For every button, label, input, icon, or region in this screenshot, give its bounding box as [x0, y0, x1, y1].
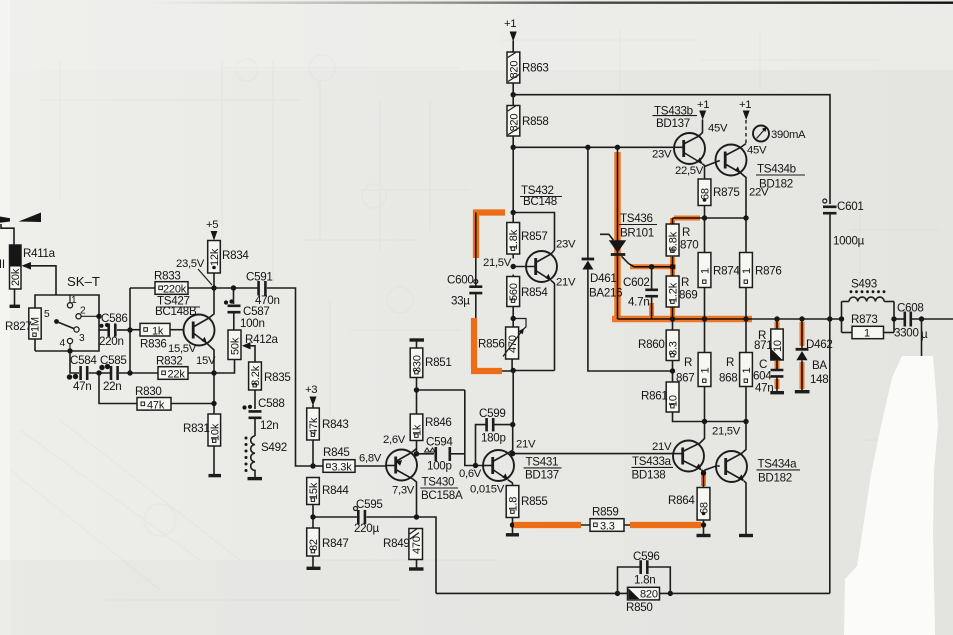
svg-text:869: 869	[679, 289, 697, 302]
wire down to 21V node	[512, 371, 514, 425]
resistor R854	[507, 275, 549, 328]
node C599/21V column	[510, 422, 515, 427]
node C602 top	[649, 264, 654, 269]
switch contact 4	[67, 338, 72, 343]
svg-text:100n: 100n	[240, 317, 265, 330]
wire rail through R850	[618, 592, 671, 594]
svg-text:R856: R856	[478, 338, 505, 351]
svg-text:BD137: BD137	[525, 469, 559, 482]
svg-text:10k: 10k	[209, 423, 221, 441]
wire left bus vertical	[129, 288, 131, 373]
svg-text:R832: R832	[156, 355, 183, 368]
svg-text:3300: 3300	[894, 327, 919, 340]
capacitor C601	[823, 199, 865, 319]
svg-text:R836: R836	[140, 338, 167, 351]
diode D461	[582, 147, 673, 371]
wire output loop right vertical	[829, 319, 831, 593]
svg-text:21,5V: 21,5V	[712, 426, 741, 438]
bottom rail	[436, 592, 618, 594]
thyristor TS436	[600, 147, 657, 319]
svg-text:2: 2	[80, 306, 86, 317]
svg-text:1.8n: 1.8n	[634, 574, 655, 587]
svg-text:R834: R834	[222, 249, 249, 262]
resistor R857	[507, 213, 548, 259]
svg-text:22,5V: 22,5V	[675, 165, 704, 177]
wire C594/R851 to TS431 base	[465, 390, 483, 466]
node TS436 tap	[615, 145, 620, 150]
svg-text:1: 1	[741, 368, 753, 374]
svg-text:68: 68	[699, 188, 711, 200]
svg-text:R411a: R411a	[23, 247, 56, 260]
capacitor C608	[894, 302, 953, 342]
node C596 left	[615, 591, 620, 596]
svg-text:23,5V: 23,5V	[176, 258, 205, 270]
svg-text:21V: 21V	[652, 441, 672, 453]
node C586/bus	[127, 327, 132, 332]
svg-text:1000µ: 1000µ	[833, 235, 865, 248]
capacitor C586	[99, 312, 130, 348]
svg-text:23V: 23V	[652, 149, 672, 161]
svg-text:R: R	[681, 276, 689, 289]
svg-text:BR101: BR101	[620, 227, 654, 240]
svg-text:15,5V: 15,5V	[168, 343, 197, 355]
svg-text:C588: C588	[258, 397, 285, 410]
diode D462	[795, 319, 833, 392]
svg-text:R860: R860	[638, 338, 665, 351]
node emitter/R832	[211, 370, 216, 375]
svg-text:871: 871	[754, 339, 772, 352]
svg-text:R843: R843	[322, 418, 349, 431]
node contact4-edge	[67, 348, 72, 353]
svg-text:R854: R854	[521, 286, 548, 299]
resistor R860	[638, 319, 680, 371]
svg-text:BD182: BD182	[758, 472, 792, 485]
node TS432 base	[511, 264, 516, 269]
wire supply rail to C601	[513, 95, 830, 204]
svg-text:R831: R831	[183, 422, 210, 435]
svg-text:S493: S493	[851, 278, 877, 291]
svg-text:470: 470	[411, 536, 423, 554]
output rail	[618, 318, 842, 320]
svg-text:15k: 15k	[308, 482, 320, 500]
resistor R858	[507, 95, 549, 148]
svg-text:180p: 180p	[481, 432, 506, 445]
capacitor C584	[67, 354, 98, 393]
svg-text:C586: C586	[101, 312, 128, 325]
node R875 bottom	[702, 215, 707, 220]
svg-text:R864: R864	[668, 494, 695, 507]
wire feedback to bottom rail	[417, 517, 437, 593]
svg-text:2,6V: 2,6V	[383, 434, 406, 446]
switch wiper 5	[54, 319, 59, 324]
resistor R844	[307, 478, 350, 529]
svg-text:15V: 15V	[196, 355, 216, 367]
svg-text:C599: C599	[479, 407, 506, 420]
svg-text:22n: 22n	[103, 380, 121, 393]
ground under R831	[209, 474, 222, 477]
svg-text:23V: 23V	[556, 239, 576, 251]
svg-text:C601: C601	[837, 200, 864, 213]
switch frame wire	[35, 295, 99, 351]
resistor R864	[668, 488, 711, 536]
svg-text:20k: 20k	[10, 268, 22, 286]
resistor R846	[410, 390, 451, 441]
capacitor C591	[246, 271, 280, 308]
capacitor C587	[224, 288, 270, 330]
svg-text:0,6V: 0,6V	[459, 468, 482, 480]
capacitor C599	[476, 407, 513, 466]
node TS432 emitter bottom	[511, 368, 516, 373]
resistor R845	[313, 446, 386, 474]
wire C585 to bus	[119, 372, 158, 374]
resistor R836	[130, 323, 184, 350]
node D461/R860	[670, 368, 675, 373]
resistor R847	[307, 528, 349, 568]
resistor R870	[666, 218, 698, 267]
svg-text:3: 3	[79, 333, 85, 344]
svg-text:BD138: BD138	[632, 469, 666, 482]
capacitor C585	[99, 354, 126, 393]
svg-text:R847: R847	[322, 537, 349, 550]
node R869 top	[670, 264, 675, 269]
transistor TS433b	[653, 105, 706, 165]
capacitor C602	[623, 267, 658, 319]
trimmer R856	[478, 319, 526, 371]
svg-text:+3: +3	[305, 384, 317, 396]
input tape-head arrows	[0, 213, 41, 223]
svg-text:10: 10	[772, 340, 784, 352]
node C596 right	[668, 591, 673, 596]
wire TS427 emitter down	[207, 343, 214, 474]
svg-text:1k: 1k	[152, 325, 164, 337]
wire TS432 column top	[512, 147, 514, 212]
node 23,5V	[211, 285, 216, 290]
node C585 junction	[96, 370, 101, 375]
svg-text:BA: BA	[812, 359, 827, 372]
svg-text:390mA: 390mA	[771, 129, 806, 141]
inductor S493 + resistor R873	[839, 278, 904, 340]
R411a wiper arrow	[30, 266, 56, 295]
svg-text:22k: 22k	[168, 369, 186, 381]
resistor R833	[130, 270, 214, 296]
orange highlight C600 column	[476, 210, 505, 259]
switch contact 2	[76, 314, 81, 319]
svg-text:R: R	[682, 226, 690, 239]
wire TS430 collector down	[413, 479, 417, 517]
switch contact 1	[69, 295, 71, 303]
svg-text:21,5V: 21,5V	[483, 257, 512, 269]
svg-text:47n: 47n	[73, 380, 91, 393]
wire TS432 emitter down	[551, 280, 555, 370]
capacitor C600	[447, 213, 513, 372]
svg-text:4.7n: 4.7n	[628, 296, 649, 309]
svg-text:R855: R855	[521, 495, 548, 508]
supply +5 / resistor R834	[206, 219, 249, 288]
resistor R850	[626, 587, 660, 614]
wire to TS433b base	[513, 146, 674, 148]
svg-text:21V: 21V	[556, 277, 576, 289]
switch contact 3	[74, 327, 79, 332]
svg-text:47k: 47k	[147, 400, 165, 412]
resistor R869	[666, 267, 697, 319]
potentiometer R411a	[10, 245, 56, 289]
node C587 tap	[231, 285, 236, 290]
svg-text:C608: C608	[897, 302, 924, 315]
wire 22,5V node row (orange part)	[673, 217, 747, 219]
svg-text:870: 870	[680, 239, 698, 252]
svg-text:4: 4	[60, 338, 66, 349]
svg-text:C595: C595	[356, 498, 383, 511]
svg-text:+1: +1	[697, 99, 709, 111]
node 22V/R876	[743, 215, 748, 220]
svg-text:7,3V: 7,3V	[392, 485, 415, 497]
svg-text:C584: C584	[70, 354, 97, 367]
svg-text:R851: R851	[425, 356, 452, 369]
resistor R855	[506, 480, 548, 535]
svg-text:820: 820	[640, 589, 658, 601]
capacitor C594	[417, 436, 465, 473]
svg-text:BC148: BC148	[523, 195, 557, 208]
wire R855-R859 (orange highlighted)	[513, 524, 591, 526]
node bus bottom	[127, 370, 132, 375]
svg-text:12k: 12k	[209, 248, 221, 266]
svg-text:R849: R849	[383, 537, 410, 550]
svg-text:33µ: 33µ	[451, 295, 470, 308]
node R851/R846	[414, 387, 419, 392]
svg-text:1: 1	[71, 295, 77, 306]
wire emitter node	[513, 370, 554, 372]
svg-text:C591: C591	[246, 271, 273, 284]
resistor R863	[507, 52, 549, 95]
node TS432 top	[511, 210, 516, 215]
node C595/R849/collector	[414, 514, 419, 519]
svg-text:6,8V: 6,8V	[359, 453, 382, 465]
transistor TS432	[513, 184, 562, 282]
resistor R827	[5, 308, 42, 339]
svg-text:BD137: BD137	[656, 117, 690, 130]
svg-text:R876: R876	[755, 265, 782, 278]
scan top edge line	[150, 2, 953, 4]
svg-text:+1: +1	[739, 99, 751, 111]
wire R859 to R864 (orange highlighted)	[624, 524, 704, 526]
svg-text:R845: R845	[323, 446, 350, 459]
dashed meter link	[745, 120, 747, 144]
resistor R875	[698, 179, 739, 218]
resistor R832	[156, 355, 214, 381]
resistor R849	[383, 529, 424, 570]
transistor TS430 (PNP)	[386, 450, 463, 502]
svg-text:220µ: 220µ	[354, 522, 379, 535]
svg-text:D461: D461	[590, 272, 617, 285]
R412a wiper from R835	[249, 346, 255, 362]
capacitor C588	[242, 397, 284, 436]
svg-text:0,015V: 0,015V	[470, 484, 505, 496]
meter 390mA	[753, 126, 806, 142]
svg-text:BC148B: BC148B	[155, 305, 197, 318]
svg-text:560: 560	[508, 283, 520, 301]
wire C584-C585	[89, 372, 110, 374]
svg-text:C596: C596	[633, 550, 660, 563]
wire TS432 collector loop	[513, 213, 554, 251]
svg-text:3.3: 3.3	[600, 521, 615, 533]
svg-text:45V: 45V	[747, 145, 767, 157]
node 21V	[510, 451, 515, 456]
node TS433a emitter	[701, 470, 703, 488]
svg-text:R850: R850	[626, 601, 653, 614]
wire TS434b emitter down / 22V	[740, 173, 746, 218]
svg-text:TS430: TS430	[422, 476, 455, 489]
node R854/R856 wiper	[511, 316, 516, 321]
svg-text:TS433a: TS433a	[632, 455, 672, 468]
wire R830 to emitter column	[171, 403, 214, 405]
svg-text:R: R	[726, 356, 734, 369]
svg-text:3.3k: 3.3k	[332, 462, 353, 474]
resistor R831	[183, 414, 221, 446]
orange highlight C600 bottom	[471, 318, 502, 371]
node R855 bottom	[510, 522, 515, 527]
resistor R876	[740, 218, 782, 319]
svg-text:R833: R833	[154, 270, 181, 283]
svg-text:SK–T: SK–T	[67, 274, 100, 289]
transistor TS427	[155, 295, 215, 346]
svg-text:50k: 50k	[230, 337, 242, 355]
resistor R868	[719, 319, 753, 422]
svg-text:R835: R835	[264, 371, 291, 384]
svg-text:R: R	[684, 356, 692, 369]
svg-text:45V: 45V	[708, 123, 728, 135]
node R846/C594/emitter	[414, 451, 419, 456]
wire output down	[921, 319, 923, 357]
svg-text:R875: R875	[713, 186, 740, 199]
svg-text:BC158A: BC158A	[421, 489, 463, 502]
resistor R859	[590, 506, 624, 533]
svg-text:R861: R861	[641, 390, 668, 403]
svg-text:R858: R858	[522, 115, 549, 128]
resistor R851	[410, 340, 452, 390]
svg-text:+5: +5	[206, 219, 218, 231]
svg-text:12n: 12n	[260, 419, 278, 432]
svg-text:868: 868	[719, 372, 737, 385]
node R864 bottom	[701, 522, 706, 527]
svg-text:C602: C602	[623, 276, 650, 289]
svg-text:22V: 22V	[749, 187, 769, 199]
svg-text:1: 1	[699, 368, 711, 374]
svg-text:R873: R873	[851, 313, 878, 326]
node contact2-edge	[96, 314, 101, 319]
resistor R830	[135, 385, 171, 412]
svg-text:148: 148	[810, 373, 828, 386]
capacitor C596 bridge	[618, 550, 671, 593]
wire TS436 gate to C602/R869 (orange)	[634, 266, 673, 268]
svg-text:R859: R859	[592, 506, 619, 519]
svg-text:820: 820	[508, 61, 520, 79]
svg-text:R827: R827	[5, 320, 32, 333]
wire rail to right vertical	[670, 592, 830, 594]
svg-text:+1: +1	[504, 18, 516, 30]
resistor R861	[641, 371, 746, 422]
trimmer R871	[754, 319, 784, 369]
wire TS430 emitter to R846 node	[413, 441, 417, 453]
svg-text:R863: R863	[522, 62, 549, 75]
svg-text:8.2k: 8.2k	[250, 365, 262, 386]
node emitter/R830	[211, 401, 216, 406]
svg-text:21V: 21V	[516, 439, 536, 451]
resistor R843	[307, 408, 349, 466]
inductor S492	[245, 436, 287, 479]
wire TS427 collector up	[208, 288, 214, 319]
node 21,5V row	[702, 419, 707, 424]
rail junction nodes	[670, 316, 675, 321]
svg-text:S492: S492	[261, 441, 287, 454]
svg-text:1: 1	[741, 268, 753, 274]
svg-text:TS436: TS436	[620, 212, 653, 225]
svg-text:D462: D462	[806, 338, 833, 351]
transistor TS433a	[632, 422, 705, 482]
svg-text:R846: R846	[425, 416, 452, 429]
svg-text:R857: R857	[521, 230, 548, 243]
wire R830 leg	[99, 373, 137, 404]
transistor TS431	[483, 450, 562, 482]
svg-text:TS434b: TS434b	[757, 163, 796, 176]
wire TS433a emitter to TS434a base	[704, 466, 720, 472]
node R844/C595	[310, 514, 315, 519]
node output	[919, 316, 924, 321]
svg-text:C585: C585	[100, 354, 127, 367]
wire C591 to R843 node	[267, 288, 314, 466]
wire collector node to C591	[214, 287, 258, 289]
node D461 tap	[585, 145, 590, 150]
svg-text:C600: C600	[447, 274, 474, 287]
node TS431 base / C599	[473, 463, 478, 468]
wire input to R411a	[1, 224, 14, 245]
capacitor C604	[753, 358, 784, 395]
svg-text:1: 1	[699, 268, 711, 274]
svg-text:C594: C594	[426, 436, 453, 449]
svg-text:47k: 47k	[308, 417, 320, 435]
capacitor C595	[313, 498, 417, 535]
transistor TS434b	[716, 144, 806, 191]
svg-text:R874: R874	[713, 265, 740, 278]
node R843/R845/R844	[310, 463, 315, 468]
wire TS431 collector to 21V node	[509, 425, 513, 453]
svg-text:R830: R830	[135, 385, 162, 398]
svg-text:III: III	[0, 258, 5, 271]
svg-text:867: 867	[676, 372, 694, 385]
svg-text:1.8: 1.8	[508, 497, 520, 512]
node R863/R858	[511, 92, 516, 97]
svg-text:220n: 220n	[99, 335, 124, 348]
svg-text:1: 1	[864, 327, 870, 339]
svg-text:5: 5	[44, 309, 50, 320]
resistor R835	[249, 362, 291, 409]
resistor R867	[676, 319, 711, 422]
ground under R411a	[14, 289, 16, 305]
potentiometer R412a	[214, 330, 279, 373]
svg-text:TS434a: TS434a	[758, 458, 798, 471]
wire 21V to TS433a base	[513, 453, 673, 455]
white-out patch	[844, 356, 938, 635]
svg-text:100p: 100p	[427, 460, 452, 473]
node R858 bottom	[511, 145, 516, 150]
svg-text:10: 10	[668, 395, 680, 407]
resistor R874	[698, 218, 740, 319]
wire C584 leg	[70, 351, 79, 373]
wire TS433b emitter to R875/TS434b base	[702, 164, 704, 179]
transistor TS434a	[716, 422, 800, 536]
svg-text:R844: R844	[322, 484, 349, 497]
svg-text:TS431: TS431	[526, 456, 559, 469]
